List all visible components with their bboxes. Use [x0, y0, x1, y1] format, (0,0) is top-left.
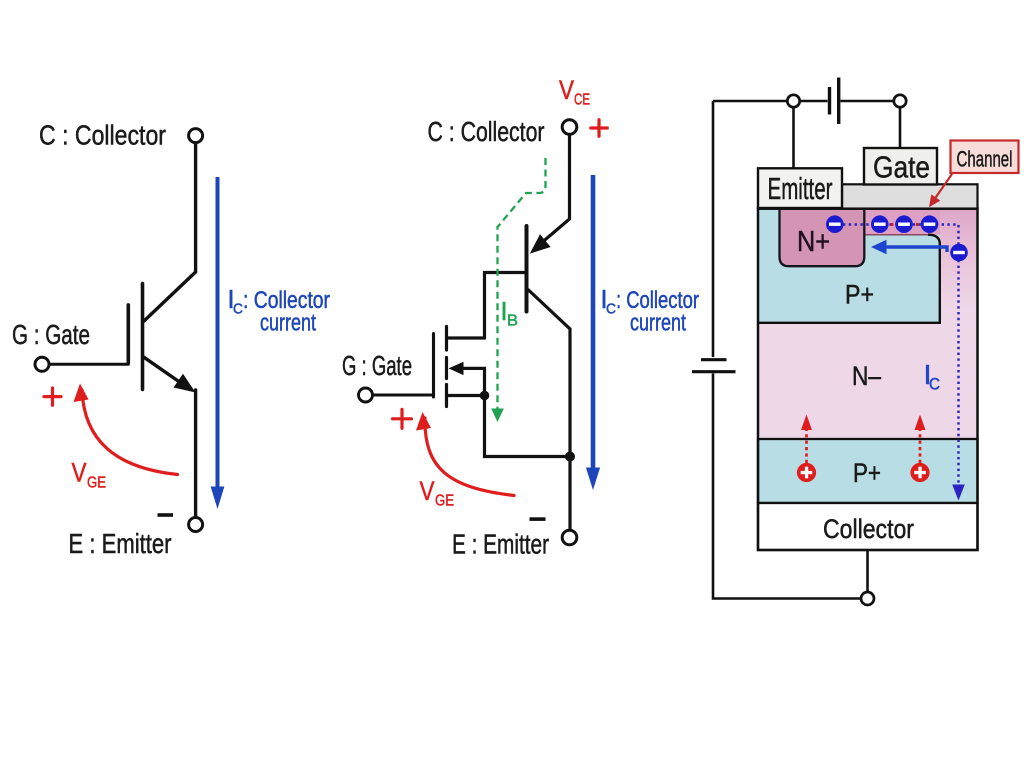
svg-text:G : Gate: G : Gate — [342, 350, 412, 381]
svg-text:C : Collector: C : Collector — [39, 119, 166, 150]
svg-text:Channel: Channel — [957, 147, 1013, 172]
svg-text:P+: P+ — [853, 458, 881, 488]
svg-text:P+: P+ — [845, 280, 874, 310]
svg-text:C: C — [606, 301, 616, 318]
svg-text:E : Emitter: E : Emitter — [69, 528, 172, 559]
svg-text:V: V — [420, 476, 435, 506]
svg-text:current: current — [630, 310, 686, 337]
svg-text:GE: GE — [87, 475, 106, 492]
svg-text:Collector: Collector — [823, 514, 914, 544]
svg-text:C: C — [929, 375, 940, 394]
svg-text:N+: N+ — [797, 226, 830, 258]
svg-text:current: current — [260, 310, 316, 337]
svg-text:GE: GE — [435, 493, 454, 510]
svg-text:N–: N– — [852, 361, 881, 391]
svg-text:C: C — [233, 301, 243, 318]
svg-text:B: B — [507, 313, 518, 330]
svg-text:V: V — [72, 458, 87, 488]
svg-text:V: V — [559, 75, 574, 105]
svg-text:C : Collector: C : Collector — [428, 116, 545, 147]
svg-text:Gate: Gate — [873, 150, 930, 185]
svg-text:E : Emitter: E : Emitter — [452, 529, 549, 560]
svg-text:Emitter: Emitter — [768, 171, 833, 206]
svg-text:CE: CE — [574, 92, 590, 109]
svg-text:G : Gate: G : Gate — [12, 319, 90, 350]
